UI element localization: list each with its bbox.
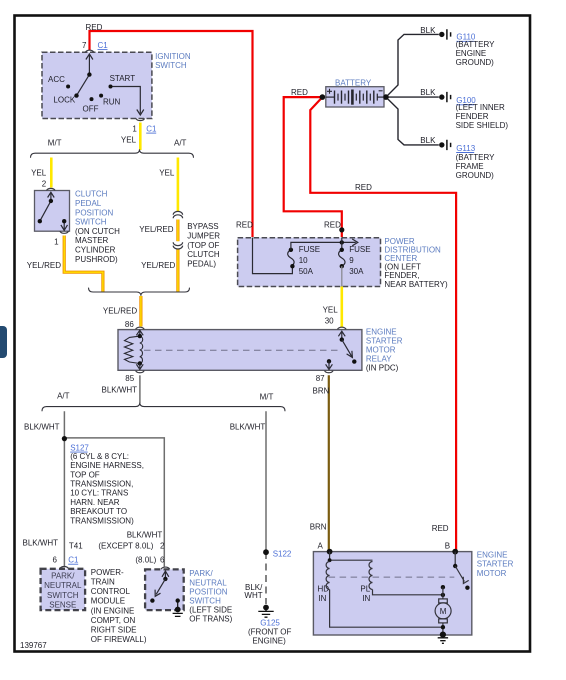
svg-text:POSITION: POSITION — [75, 208, 113, 217]
svg-text:YEL: YEL — [323, 305, 339, 314]
svg-text:OFF: OFF — [83, 105, 99, 114]
svg-text:FUSE: FUSE — [349, 245, 370, 254]
svg-text:OF TRANS): OF TRANS) — [189, 615, 232, 624]
connector bump relay pin87 — [325, 371, 334, 373]
relay switch pivot dot — [340, 337, 344, 341]
svg-text:IN: IN — [362, 594, 370, 603]
svg-text:B: B — [445, 542, 450, 551]
svg-text:BATTERY: BATTERY — [335, 78, 372, 87]
svg-text:M/T: M/T — [48, 139, 62, 148]
ground G110 — [439, 29, 451, 39]
svg-text:FENDER: FENDER — [456, 112, 489, 121]
connector bump relay pin86 — [136, 327, 145, 329]
svg-text:BREAKOUT TO: BREAKOUT TO — [70, 507, 127, 516]
svg-text:YEL/RED: YEL/RED — [103, 307, 137, 316]
svg-text:87: 87 — [316, 374, 325, 383]
svg-text:SIDE SHIELD): SIDE SHIELD) — [456, 121, 509, 130]
connector bump relay pin30 — [338, 327, 347, 329]
svg-text:BRN: BRN — [310, 523, 327, 532]
battery box — [326, 87, 384, 107]
connector bump clutch pin1 — [60, 231, 69, 233]
wire BRN: relay pin87 to starter A terminal — [328, 375, 330, 550]
starter case ground — [440, 632, 446, 638]
svg-text:YEL/RED: YEL/RED — [141, 261, 175, 270]
svg-text:MOTOR: MOTOR — [366, 346, 396, 355]
relay coil terminal dots — [138, 334, 142, 338]
svg-text:START: START — [110, 74, 136, 83]
svg-text:G125: G125 — [260, 618, 280, 627]
svg-text:RED: RED — [432, 524, 449, 533]
svg-text:IN: IN — [318, 594, 326, 603]
svg-text:RED: RED — [324, 220, 341, 229]
bypass jumper connector arcs bottom — [173, 242, 182, 245]
svg-text:T41: T41 — [69, 542, 83, 551]
svg-text:YEL/RED: YEL/RED — [27, 261, 61, 270]
wire YEL/RED: clutch switch pin1 to brace — [64, 236, 103, 292]
relay pin85 arrow — [136, 364, 143, 370]
starter HD coil — [326, 562, 330, 590]
svg-text:6: 6 — [53, 556, 58, 565]
wire BLK/WHT: brace A/T branch to S127 and PCM pin6 — [63, 411, 65, 566]
svg-text:COMPT, ON: COMPT, ON — [91, 616, 136, 625]
svg-text:2: 2 — [160, 542, 165, 551]
svg-text:NEAR BATTERY): NEAR BATTERY) — [384, 280, 448, 289]
svg-text:NEUTRAL: NEUTRAL — [189, 578, 227, 587]
power distribution center box — [238, 238, 381, 287]
ignition switch internals — [77, 54, 144, 115]
svg-text:BYPASS: BYPASS — [187, 222, 218, 231]
battery minus terminal dot — [383, 94, 389, 100]
svg-text:MOTOR: MOTOR — [477, 569, 507, 578]
svg-text:(ON CUTCH: (ON CUTCH — [75, 227, 120, 236]
svg-text:BLK: BLK — [420, 88, 436, 97]
powertrain control module box — [41, 569, 86, 610]
svg-text:STARTER: STARTER — [366, 337, 403, 346]
connector bump clutch pin2 — [47, 188, 56, 190]
clutch arrow to pin1 — [63, 221, 65, 229]
svg-text:SWITCH: SWITCH — [75, 218, 107, 227]
svg-text:A/T: A/T — [174, 139, 187, 148]
svg-text:BLK/WHT: BLK/WHT — [23, 538, 59, 547]
svg-text:FUSE: FUSE — [299, 245, 320, 254]
svg-text:(8.0L): (8.0L) — [135, 556, 156, 565]
fuse 9 terminal dots — [340, 248, 344, 252]
clutch contact dot pin1 — [62, 219, 66, 223]
svg-text:6: 6 — [160, 556, 165, 565]
svg-text:GROUND): GROUND) — [456, 58, 495, 67]
ground G125 — [263, 605, 269, 611]
svg-text:POWER-: POWER- — [91, 568, 124, 577]
svg-text:PL: PL — [360, 584, 370, 593]
P/N switch blade with arrowhead — [155, 579, 165, 596]
svg-text:BRN: BRN — [313, 386, 330, 395]
ignition contact dot OFF — [90, 97, 94, 101]
wire YEL: ignition pin1 to brace — [139, 123, 142, 151]
wire BLK: battery- to G100 — [386, 96, 439, 98]
clutch pedal position switch box — [35, 191, 70, 232]
svg-text:WHT: WHT — [244, 591, 262, 600]
ignition start contact wire to pin1 — [111, 87, 141, 114]
clutch pivot dot — [49, 199, 53, 203]
svg-text:SWITCH: SWITCH — [155, 61, 187, 70]
clutch blade tip dot — [38, 219, 42, 223]
relay coil zigzag — [125, 336, 140, 363]
ignition contact dot ACC — [66, 85, 70, 89]
svg-text:BLK/WHT: BLK/WHT — [102, 386, 138, 395]
wire YEL: brace to clutch switch pin2 — [50, 158, 53, 188]
P/N switch internal ground — [177, 601, 179, 608]
svg-text:SWITCH: SWITCH — [189, 597, 221, 606]
svg-text:LOCK: LOCK — [53, 96, 75, 105]
motor ground bus dot — [441, 625, 445, 629]
svg-text:(LEFT SIDE: (LEFT SIDE — [189, 606, 232, 615]
svg-text:(IN PDC): (IN PDC) — [366, 364, 399, 373]
relay switch blade end dot — [352, 359, 356, 363]
svg-text:10 CYL: TRANS: 10 CYL: TRANS — [70, 489, 128, 498]
wire YEL/RED: brace to relay pin86 — [139, 296, 142, 327]
svg-text:ENGINE: ENGINE — [477, 551, 508, 560]
ignition wiper blade — [77, 75, 90, 96]
connector bump park/neutral switch pin — [161, 567, 170, 569]
svg-text:50A: 50A — [299, 267, 314, 276]
svg-text:BLK: BLK — [420, 26, 436, 35]
svg-text:CLUTCH: CLUTCH — [75, 190, 108, 199]
starter internal feed from A — [330, 552, 373, 561]
clutch arrow to pin2 — [50, 193, 52, 201]
svg-text:(TOP OF: (TOP OF — [187, 241, 219, 250]
svg-text:RED: RED — [236, 220, 253, 229]
battery plus sign — [327, 89, 332, 94]
svg-text:C1: C1 — [68, 556, 79, 565]
starter PL coil — [369, 562, 373, 590]
park/neutral position switch box — [145, 569, 184, 610]
svg-text:SENSE: SENSE — [49, 600, 76, 609]
svg-text:TRAIN: TRAIN — [91, 578, 115, 587]
svg-text:(BATTERY: (BATTERY — [456, 153, 495, 162]
clutch switch internals — [40, 192, 68, 230]
wire RED: battery+ to starter B terminal — [310, 97, 456, 551]
splice S127 — [62, 436, 67, 441]
engine starter motor box — [313, 552, 471, 635]
brace: A/T - M/T split below relay pin85 — [42, 403, 285, 411]
svg-text:BLK/WHT: BLK/WHT — [127, 530, 163, 539]
svg-text:RED: RED — [86, 23, 103, 32]
svg-text:MASTER: MASTER — [75, 236, 109, 245]
svg-text:RIGHT SIDE: RIGHT SIDE — [91, 626, 137, 635]
fuse 10 element — [288, 250, 294, 266]
svg-text:ENGINE HARNESS,: ENGINE HARNESS, — [70, 461, 144, 470]
svg-text:BLK/WHT: BLK/WHT — [24, 422, 60, 431]
PDC feed to fuse9 — [341, 238, 343, 250]
relay switch contact dot to pin87 — [327, 359, 331, 363]
svg-text:(6 CYL & 8 CYL:: (6 CYL & 8 CYL: — [70, 452, 129, 461]
svg-text:IGNITION: IGNITION — [155, 52, 191, 61]
PDC internal wiring fuse10 feed — [253, 238, 293, 274]
svg-text:RELAY: RELAY — [366, 355, 392, 364]
ignition switch box — [42, 52, 152, 118]
svg-text:(IN ENGINE: (IN ENGINE — [91, 606, 135, 615]
PDC bus from fuse10 top with output arrow — [291, 242, 356, 249]
svg-text:7: 7 — [82, 41, 87, 50]
svg-text:G113: G113 — [456, 144, 476, 153]
svg-text:A: A — [318, 542, 324, 551]
fuse 10 terminal dots — [289, 248, 293, 252]
svg-text:M/T: M/T — [260, 392, 274, 401]
svg-text:TRANSMISSION,: TRANSMISSION, — [70, 480, 133, 489]
connector bump relay pin85 — [136, 371, 145, 373]
brace: merge clutch/jumper into relay pin86 — [89, 288, 190, 296]
svg-text:GROUND): GROUND) — [456, 171, 495, 180]
ground G100 — [439, 92, 451, 102]
junction dot on red wire above PDC — [339, 227, 344, 232]
wire BLK: battery- to G113 — [386, 97, 439, 145]
relay coil dashed link to switch — [144, 349, 340, 351]
svg-text:CYLINDER: CYLINDER — [75, 246, 116, 255]
connector bump ignition pin7 C1 — [85, 50, 94, 52]
wire BLK/WHT: brace M/T branch to S122 — [265, 411, 267, 552]
svg-text:PARK/: PARK/ — [51, 571, 75, 580]
starter PL coil wire to motor — [373, 590, 443, 595]
splice S122 — [263, 549, 269, 555]
PDC bus junction dot — [340, 240, 344, 244]
ignition blade tip dot at LOCK — [74, 93, 78, 97]
svg-text:1: 1 — [132, 125, 137, 134]
svg-text:MODULE: MODULE — [91, 597, 125, 606]
svg-text:HARN. NEAR: HARN. NEAR — [70, 498, 120, 507]
bypass jumper connector arcs top — [173, 211, 182, 214]
relay switch blade with arrowhead — [342, 340, 353, 358]
svg-text:(LEFT INNER: (LEFT INNER — [456, 103, 505, 112]
svg-text:BLK: BLK — [420, 136, 436, 145]
svg-text:S122: S122 — [273, 549, 292, 558]
wire BLK/WHT dashed: S122 to G125 ground — [265, 552, 267, 604]
svg-text:PEDAL): PEDAL) — [187, 259, 216, 268]
svg-text:139767: 139767 — [20, 641, 47, 650]
svg-text:10: 10 — [299, 256, 308, 265]
svg-text:ENGINE: ENGINE — [366, 328, 397, 337]
svg-text:SWITCH: SWITCH — [47, 591, 79, 600]
svg-text:CONTROL: CONTROL — [91, 587, 131, 596]
relay coil arcs — [140, 336, 143, 363]
svg-text:JUMPER: JUMPER — [187, 232, 220, 241]
wire RED: battery+ left to PDC fuse9 — [284, 97, 342, 237]
svg-text:85: 85 — [125, 374, 134, 383]
svg-text:ACC: ACC — [48, 75, 65, 84]
wire YEL/RED: bypass jumper middle segment — [176, 220, 179, 242]
wire YEL/RED: bypass jumper to brace — [176, 249, 179, 292]
svg-text:STARTER: STARTER — [477, 560, 514, 569]
wire BLK: battery- to G110 — [386, 34, 439, 97]
battery plus terminal dot — [320, 94, 326, 100]
connector bump PCM pin6 C1 — [60, 566, 69, 568]
svg-text:YEL: YEL — [31, 168, 47, 177]
motor terminal dots — [441, 585, 445, 589]
svg-text:YEL/RED: YEL/RED — [139, 225, 173, 234]
svg-text:RED: RED — [355, 183, 372, 192]
svg-text:86: 86 — [125, 320, 134, 329]
starter A terminal dot — [327, 549, 333, 555]
svg-text:TOP OF: TOP OF — [70, 470, 100, 479]
svg-text:POSITION: POSITION — [189, 587, 227, 596]
svg-text:ENGINE): ENGINE) — [252, 637, 286, 646]
svg-text:BLK/WHT: BLK/WHT — [230, 422, 266, 431]
P/N switch pivot dot — [163, 577, 167, 581]
svg-text:OF FIREWALL): OF FIREWALL) — [91, 635, 147, 644]
brace: M/T - A/T split below ignition — [31, 149, 194, 157]
svg-text:C1: C1 — [146, 125, 157, 134]
svg-text:(FRONT OF: (FRONT OF — [248, 628, 292, 637]
park/neutral position switch internals — [162, 571, 169, 579]
svg-text:2: 2 — [42, 179, 47, 188]
engine starter motor relay box — [118, 330, 362, 371]
connector bump ignition pin1 C1 — [136, 119, 145, 121]
svg-text:30: 30 — [325, 317, 334, 326]
clutch blade — [40, 201, 51, 221]
svg-text:CLUTCH: CLUTCH — [187, 250, 220, 259]
starter B terminal dot — [452, 549, 458, 555]
svg-text:PEDAL: PEDAL — [75, 199, 102, 208]
starter dashed link line — [329, 576, 455, 578]
fuse 9 element — [339, 250, 345, 266]
wire BLK/WHT: S127 branch to park/neutral position switch — [64, 438, 164, 567]
svg-text:9: 9 — [349, 256, 354, 265]
svg-text:M: M — [440, 607, 447, 616]
svg-text:(BATTERY: (BATTERY — [456, 40, 495, 49]
battery cell plates — [326, 90, 384, 105]
wire YEL: brace to bypass jumper — [177, 158, 180, 212]
fuse 9 output lead — [341, 266, 343, 286]
svg-text:A/T: A/T — [57, 392, 70, 401]
P/N switch blade end dot — [150, 598, 154, 602]
svg-text:TRANSMISSION): TRANSMISSION) — [70, 516, 134, 525]
svg-text:1: 1 — [54, 238, 59, 247]
ignition contact dot RUN — [99, 94, 103, 98]
P/N switch ground contact dot — [176, 598, 180, 602]
battery minus sign — [379, 90, 383, 92]
relay switch pin30 arrow — [338, 331, 345, 339]
svg-text:PUSHROD): PUSHROD) — [75, 255, 118, 264]
ignition wiper arrow to pin7 — [88, 55, 90, 75]
svg-text:RED: RED — [291, 88, 308, 97]
ground G113 — [439, 140, 451, 150]
svg-text:NEUTRAL: NEUTRAL — [44, 581, 82, 590]
left navy bookmark tab — [0, 326, 7, 358]
motor M symbol — [439, 599, 448, 603]
svg-text:30A: 30A — [349, 267, 364, 276]
wire YEL: PDC fuse9 to relay pin30 — [340, 287, 343, 328]
relay pin87 arrow — [326, 361, 333, 369]
svg-text:FRAME: FRAME — [456, 162, 484, 171]
wire BLK/WHT: relay pin85 to brace — [139, 375, 141, 403]
relay pin86 arrow — [136, 330, 143, 336]
svg-text:HD: HD — [318, 584, 330, 593]
svg-text:(EXCEPT 8.0L): (EXCEPT 8.0L) — [98, 542, 153, 551]
svg-text:YEL: YEL — [159, 168, 175, 177]
starter HD coil return to ground bus — [330, 590, 442, 628]
svg-text:RUN: RUN — [103, 98, 121, 107]
wire RED: ignition pin7 to PDC fuse10 — [90, 31, 253, 237]
ignition pivot dot — [87, 72, 91, 76]
ignition contact dot START — [109, 85, 113, 89]
svg-text:YEL: YEL — [121, 136, 137, 145]
svg-text:PARK/: PARK/ — [189, 569, 213, 578]
svg-text:C1: C1 — [98, 41, 109, 50]
starter solenoid switch from B — [454, 552, 456, 566]
svg-text:ENGINE: ENGINE — [456, 49, 487, 58]
